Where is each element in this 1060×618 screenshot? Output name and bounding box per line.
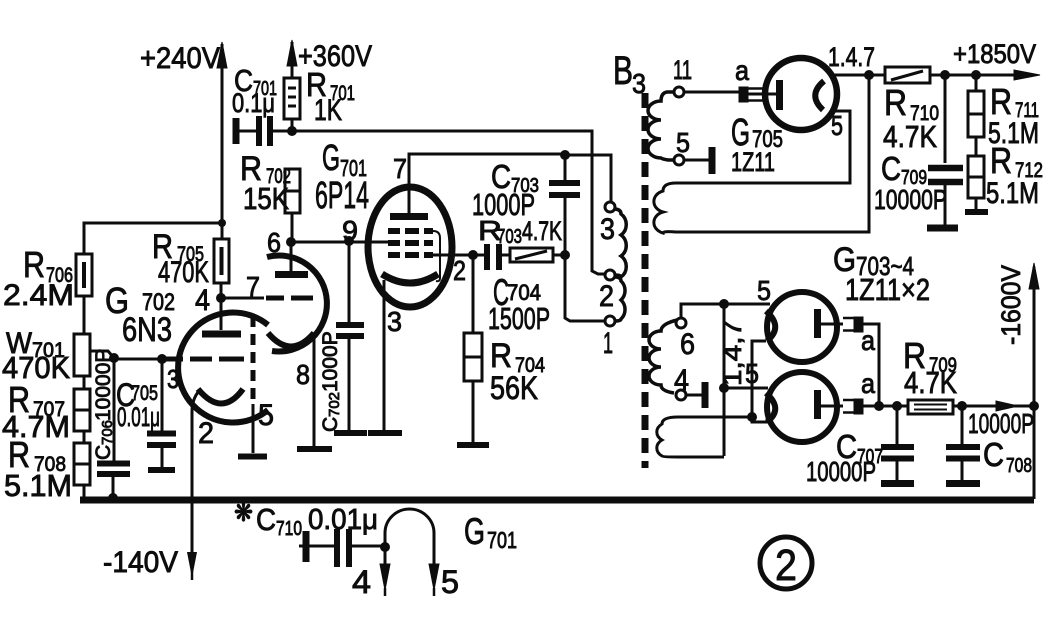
terminal 4 [676,390,686,400]
ground of pin 8 [297,446,332,452]
node pin4 G702 [216,293,226,303]
svg-text:8: 8 [296,359,310,390]
svg-text:1Z11×2: 1Z11×2 [845,272,930,307]
terminal 5 upper [674,155,684,165]
anode bar G705 [776,80,783,110]
resistor R712 [968,140,1043,210]
svg-text:3: 3 [167,364,179,394]
wire pin6 node to pin9 of G701 [291,241,388,244]
svg-text:2: 2 [599,280,614,313]
wire node to winding terminal 1 [565,255,605,321]
svg-text:4: 4 [195,284,210,317]
svg-text:C: C [92,445,115,460]
svg-text:706: 706 [99,420,116,445]
capacitor C707 [806,406,914,487]
cathode lead pin 3 [383,280,386,430]
svg-text:a: a [861,325,875,356]
ground of pin 3 [368,430,402,436]
node C703 top [560,150,570,160]
contact bar terminal 4 [702,382,709,408]
ground bar C707 [881,480,914,487]
anode bar G701 [390,213,428,220]
svg-text:1Z11: 1Z11 [731,147,775,177]
grid rows G701 [388,228,433,234]
winding 6-4 [649,320,677,393]
svg-text:702: 702 [326,392,343,417]
output lead G703 [818,323,843,326]
ground of R704 [457,442,489,448]
cathode arc G701 [382,274,438,283]
grid row triode a [162,357,244,362]
wire terminal 5 to contact bar [684,159,709,162]
potentiometer W701 [2,327,90,385]
+240V supply arrow [140,42,227,223]
grid row triode b [266,296,313,301]
wire R709 to -1600V line [953,401,1034,411]
node wiper [109,353,119,363]
filament bus vertical [723,304,726,456]
wire R705 to pin4 node [220,283,223,298]
resistor R707 [2,379,90,444]
+1850V rail [945,39,1040,80]
ground of shield [238,454,267,460]
node pin9 [344,236,354,246]
node filament top [719,299,729,309]
svg-text:5: 5 [258,399,274,432]
capacitor C708 [946,406,1034,480]
contact bar terminal 5 [709,147,716,174]
svg-text:5.1M: 5.1M [986,177,1039,210]
resistor R708 [4,434,90,503]
node C710/loop [380,542,390,552]
svg-text:4.7K: 4.7K [904,365,957,400]
resistor R704 [464,255,545,442]
shield lead pin 5 dashed [251,316,256,404]
svg-text:❋: ❋ [234,497,253,527]
resistor R702 [240,150,300,216]
wire node to G703 filament [724,303,770,306]
svg-text:5: 5 [676,127,690,158]
resistor R711 [968,75,1039,150]
anode bar triode a [202,331,241,338]
terminal 11 [674,87,684,97]
output lead G704 [818,405,843,408]
resistor R705 [152,228,229,289]
node R711 [971,70,981,80]
svg-text:B: B [613,49,633,93]
svg-text:2: 2 [453,255,466,286]
label G701 bottom [464,511,517,553]
svg-text:0.01μ: 0.01μ [308,504,378,536]
svg-text:1000P: 1000P [472,187,535,222]
svg-text:3: 3 [632,68,646,99]
terminal 2 [605,270,615,280]
pin 5 arrow [429,564,459,600]
cathode bar G704 [814,390,821,419]
tube G702 envelope right triode [267,255,327,351]
filament crescent G704 [766,393,775,422]
node R701/C701 [287,126,297,136]
wire wiper node to grid node [114,358,162,361]
svg-text:15K: 15K [243,181,289,216]
svg-text:G: G [464,511,485,552]
wire node to winding terminal 2 [292,131,605,274]
anode lead triode b [290,242,293,271]
wire G703 output down [863,324,879,404]
capacitor C701 [232,63,292,146]
svg-text:+1850V: +1850V [953,39,1036,69]
svg-text:10000P: 10000P [968,408,1034,439]
svg-text:R: R [990,81,1012,122]
shield lead pin 5 solid [252,404,255,453]
wiper of W701 [90,351,114,358]
anode lead pin 7 [409,154,565,213]
svg-text:4: 4 [352,564,371,600]
wire terminal 11 to top cap [684,91,739,94]
filament return riser [752,341,768,422]
node after R709 [957,401,967,411]
svg-text:7: 7 [393,153,407,184]
svg-text:5.1M: 5.1M [4,468,72,503]
svg-text:1: 1 [603,327,613,360]
wire R701 to node [291,119,294,131]
terminal 6 [676,318,686,328]
svg-text:1500P: 1500P [488,301,550,336]
ground of C709 [927,225,958,232]
wire R707 to R708 [83,431,86,443]
G705 designator [731,112,783,177]
capacitor C703 [472,155,580,255]
anode lead triode a [220,298,223,330]
resistor R710 [869,67,945,154]
-1600V line [996,263,1039,499]
terminal 3 [605,202,615,212]
tube G701 envelope [368,187,452,307]
svg-text:10000P: 10000P [806,456,876,487]
svg-text:5: 5 [441,564,459,600]
node +240/R706 [218,219,226,227]
svg-text:a: a [735,55,749,86]
ground bus [80,497,1034,504]
svg-text:-1600V: -1600V [996,265,1026,345]
wire R702 to pin6 node [291,213,294,242]
svg-text:6: 6 [680,328,695,361]
wire R706 to W701 [83,296,86,334]
ground bar C708 [946,480,980,487]
wire node to G704 filament [724,387,768,390]
heater jumper loop G701 [385,509,434,566]
wire pin2 out of G701 [430,254,473,257]
svg-text:4: 4 [674,364,689,397]
label *C710 0.01u [234,497,378,540]
svg-text:2: 2 [198,417,214,450]
node C709 [940,70,950,80]
terminal 1 [605,316,615,326]
svg-text:2: 2 [775,541,797,590]
filament loop G705 [654,75,869,233]
ground of R712 [965,198,988,212]
cathode crescent G705 [815,81,824,110]
svg-text:7: 7 [246,271,260,302]
svg-text:10000P: 10000P [874,184,947,215]
svg-text:1K: 1K [314,94,342,127]
+360V supply arrow [287,40,372,78]
heater winding bottom [657,417,752,457]
svg-text:0.01μ: 0.01μ [117,402,160,432]
filament crescent G703 [766,311,775,341]
capacitor C710 [299,529,385,567]
pin 4 arrow [352,547,390,600]
svg-text:11: 11 [673,55,692,85]
cathode bar G703 [814,309,821,338]
svg-text:-140V: -140V [103,546,178,579]
top-cap symbol G703 [843,317,863,332]
wire top node to winding terminal 3 [565,155,611,202]
tube G703 envelope [767,292,837,362]
svg-text:2.4M: 2.4M [3,279,74,312]
svg-text:R: R [990,140,1012,181]
svg-text:3: 3 [387,306,402,337]
node filament return [747,412,757,422]
svg-text:3: 3 [600,213,615,246]
wire R711 to R712 [975,137,978,156]
g3 tie line [433,231,440,281]
wire G704 output to R709 [863,405,908,408]
G703-4 designator [833,241,930,307]
node -1600V junction [1029,401,1039,411]
node C706 on bus [108,493,118,503]
wire terminal 4 to contact bar [686,394,702,397]
resistor R703 [478,215,565,262]
svg-text:710: 710 [276,518,302,540]
svg-text:6P14: 6P14 [315,175,369,217]
svg-text:R: R [884,82,907,123]
wire R706 top to +240 node [84,223,222,254]
node filament mid [719,383,729,393]
svg-text:1.4.7: 1.4.7 [828,42,875,72]
node R703/C703 [560,250,570,260]
svg-text:+240V: +240V [140,42,220,75]
node G705 anode [864,70,874,80]
-140V feed [103,391,199,580]
capacitor C702 [319,241,364,432]
svg-text:5: 5 [757,275,771,306]
G701 designator [315,137,369,217]
transformer B3 core [642,93,649,468]
label B3 [613,49,646,99]
capacitor C704 [473,244,550,336]
node pin6 [286,237,296,247]
resistor R701 [284,66,355,127]
node grid of G702a [157,354,167,364]
svg-text:C: C [256,502,276,537]
svg-text:5: 5 [831,110,843,141]
svg-text:1000P: 1000P [319,331,342,392]
svg-text:6N3: 6N3 [122,311,172,349]
tube G705 envelope [765,58,837,130]
wire +240 rail to R705 top [221,223,224,239]
svg-text:1,4,7: 1,4,7 [717,320,747,386]
top-cap symbol G704 [843,399,863,414]
tube G702 envelope left triode [178,312,268,422]
winding 3-2-1 [614,209,626,277]
ground of C705 [148,467,175,473]
anode bar triode b [275,271,308,278]
node C707 [892,401,902,411]
node outputs join [874,401,884,411]
svg-text:10000P: 10000P [92,349,115,421]
svg-text:4.7K: 4.7K [883,119,937,154]
wire terminal 6 to filament node [681,304,724,318]
resistor R709 [903,335,957,414]
svg-text:G: G [322,137,340,178]
wire R708 to bus [83,485,86,499]
svg-text:703: 703 [497,226,522,248]
svg-text:0.1μ: 0.1μ [232,88,275,118]
cathode arc triode b [268,333,314,347]
svg-text:C: C [983,436,1004,473]
sheet number circled 2 [760,537,812,590]
G702 designator [105,280,175,349]
resistor R706 [3,244,92,312]
svg-text:a: a [861,368,875,399]
winding 11-5 [648,92,674,160]
tube G704 envelope [767,372,837,442]
ground of C702 [334,430,367,436]
svg-text:C: C [319,417,342,432]
capacitor C705 [116,359,176,467]
cathode lead pin 8 [313,337,316,446]
svg-text:6: 6 [267,227,281,258]
capacitor C706 [92,349,130,499]
svg-text:708: 708 [1006,455,1032,477]
svg-text:701: 701 [487,527,517,553]
svg-text:56K: 56K [490,370,538,406]
grid lead triode b from pin4 node [221,297,264,300]
cathode arc triode a [198,389,243,404]
capacitor C709 [874,75,963,225]
svg-text:C: C [881,150,901,187]
wire G705 anode to node [833,74,869,77]
wire W701 to R707 [83,376,86,389]
top-cap symbol G705 [739,87,776,102]
node pin2/R704 [468,250,478,260]
